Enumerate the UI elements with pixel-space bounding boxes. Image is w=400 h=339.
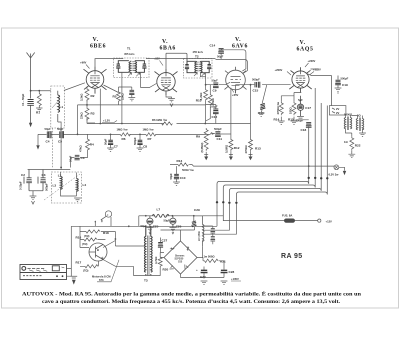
- resistor R13: [244, 84, 261, 155]
- voltage label +105V: [231, 277, 241, 281]
- svg-text:50pF: 50pF: [169, 173, 173, 180]
- ground under V2: [168, 99, 175, 107]
- svg-text:500pF: 500pF: [45, 183, 49, 191]
- capacitor C11: [210, 127, 231, 141]
- svg-text:455 kc/s: 455 kc/s: [124, 52, 135, 56]
- svg-text:R2: R2: [91, 94, 95, 98]
- junction dots power: [115, 215, 205, 278]
- svg-text:C29: C29: [194, 208, 200, 212]
- svg-text:1w 560Ω: 1w 560Ω: [204, 255, 216, 259]
- svg-text:R5: R5: [113, 95, 117, 99]
- svg-text:C15: C15: [253, 89, 259, 93]
- IF transformer T1 dashed box: [113, 58, 149, 78]
- IF transformer T1 label: [124, 47, 135, 57]
- ground arrow at bus left end: [36, 145, 39, 149]
- svg-text:22kΩ: 22kΩ: [80, 112, 84, 119]
- capacitor C5: [57, 127, 64, 143]
- svg-text:(7Ω): (7Ω): [84, 234, 90, 238]
- ground under oscillator box: [74, 198, 81, 201]
- tube V1 6BE6 label: [90, 37, 106, 50]
- svg-text:I: I: [108, 213, 109, 217]
- svg-text:C3: C3: [42, 173, 46, 177]
- wire AVC bus lower: [38, 134, 211, 145]
- ground arrow under antenna lead: [29, 123, 32, 127]
- pilot lamp: [329, 165, 347, 176]
- svg-text:C10: C10: [180, 176, 186, 180]
- output transformer T4 secondary: [356, 114, 364, 132]
- svg-text:500pF: 500pF: [296, 119, 304, 123]
- trimmer capacitor C3: [38, 170, 49, 192]
- svg-text:R7: R7: [148, 137, 152, 141]
- voltage label +92V at V2: [154, 57, 164, 66]
- svg-text:RA 95: RA 95: [281, 253, 303, 260]
- T1 secondary capacitor: [135, 61, 147, 73]
- voltage label +230V at V4: [305, 59, 316, 67]
- capacitor C6: [69, 155, 85, 162]
- svg-text:50pF: 50pF: [104, 138, 108, 145]
- capacitor C12: [206, 101, 219, 124]
- transistor type label: [92, 260, 119, 282]
- T2 tuning arrows: [194, 73, 205, 76]
- resistor R10: [196, 89, 208, 103]
- svg-text:Motorola 8 CM: Motorola 8 CM: [92, 275, 111, 279]
- svg-text:C25: C25: [153, 224, 159, 228]
- svg-text:6AV6: 6AV6: [232, 44, 248, 50]
- svg-text:500pF: 500pF: [214, 127, 222, 131]
- svg-text:C18: C18: [301, 128, 307, 132]
- svg-text:L7: L7: [157, 208, 161, 212]
- wire L1 to V1 grid: [64, 83, 85, 91]
- resistor R20: [151, 252, 169, 275]
- wire power section top: [71, 216, 217, 276]
- svg-text:R12: R12: [234, 146, 240, 150]
- junction dots mid buses: [99, 84, 206, 136]
- cable junction dots left: [216, 201, 238, 204]
- tube V2 6BA6: [155, 69, 178, 95]
- svg-text:50pF: 50pF: [217, 55, 224, 59]
- antenna: [27, 53, 35, 59]
- voltage label +222V at V4: [310, 68, 321, 75]
- tube V4 6AQ5: [289, 67, 311, 92]
- capacitor C29: [192, 208, 200, 230]
- wire tuning gang top: [28, 170, 71, 197]
- svg-text:L8 0,85Ω: L8 0,85Ω: [199, 231, 201, 241]
- svg-text:C17: C17: [305, 106, 311, 110]
- capacitor pair at L8: [211, 226, 216, 244]
- svg-text:R22: R22: [355, 144, 361, 148]
- svg-text:B: B: [97, 248, 99, 252]
- wire V1 cathode chain: [86, 87, 88, 124]
- trimmer inside L1 box: [52, 99, 60, 108]
- svg-text:5μF: 5μF: [298, 98, 303, 102]
- svg-text:C4: C4: [46, 140, 50, 144]
- electrolytic capacitor C26: [164, 216, 182, 234]
- wire AVC bus upper: [87, 89, 251, 124]
- svg-text:V.: V.: [300, 40, 306, 46]
- wires output transformer: [346, 115, 363, 133]
- svg-text:(7Ω): (7Ω): [83, 269, 89, 273]
- capacitor C14: [210, 44, 248, 74]
- svg-text:6BA6: 6BA6: [160, 46, 176, 52]
- svg-text:50pF: 50pF: [57, 127, 64, 131]
- tube V3 6AV6: [225, 67, 247, 93]
- T1 tuning arrows: [128, 73, 140, 77]
- svg-text:C19: C19: [342, 83, 348, 87]
- capacitor C18: [296, 119, 312, 133]
- T1 core: [132, 61, 133, 73]
- resistor R21: [203, 255, 226, 270]
- svg-text:500pF: 500pF: [252, 78, 260, 82]
- svg-text:+: +: [196, 268, 198, 272]
- cable junction dots right: [308, 177, 329, 180]
- resistor R4: [79, 138, 95, 153]
- svg-text:+65V: +65V: [232, 93, 239, 97]
- trimmer capacitor C2: [19, 170, 32, 191]
- T2 secondary coil: [200, 61, 202, 72]
- T1 secondary coil: [135, 61, 137, 73]
- capacitor C1: [21, 93, 34, 106]
- wire antenna to R1 and L1: [31, 90, 51, 92]
- capacitor C8: [133, 134, 147, 151]
- svg-text:180Ω: 180Ω: [289, 107, 293, 114]
- svg-text:R17: R17: [76, 261, 82, 265]
- wire V1 plate to T1: [95, 59, 113, 67]
- svg-text:V.: V.: [162, 39, 168, 45]
- svg-text:R6: R6: [122, 137, 126, 141]
- capacitor bypass at R5: [119, 87, 136, 101]
- svg-text:(0,5MΩ): (0,5MΩ): [200, 142, 204, 152]
- svg-text:V.: V.: [235, 37, 241, 43]
- svg-text:6AQ5: 6AQ5: [297, 47, 314, 53]
- svg-text:V.: V.: [93, 37, 99, 43]
- svg-text:(7Ω): (7Ω): [82, 242, 88, 246]
- voltage label +96V at V1: [80, 61, 90, 69]
- svg-text:470kΩ: 470kΩ: [244, 145, 248, 154]
- svg-text:1Ω: 1Ω: [344, 140, 348, 144]
- svg-text:C30: C30: [200, 275, 206, 279]
- resistor R11: [206, 85, 215, 121]
- svg-text:C9: C9: [213, 89, 217, 93]
- coil L3: [53, 177, 63, 190]
- wire T2 secondary down: [200, 73, 205, 89]
- control head connector box: [20, 265, 67, 280]
- svg-text:L3: L3: [53, 184, 57, 188]
- svg-text:+230V: +230V: [308, 59, 316, 63]
- IF transformer T2 dashed box: [184, 59, 213, 79]
- svg-text:T1: T1: [127, 47, 131, 51]
- resistor R15: [281, 92, 301, 124]
- svg-text:673: 673: [99, 278, 104, 282]
- svg-text:455 kc/s: 455 kc/s: [193, 50, 204, 54]
- svg-text:3-25pF: 3-25pF: [19, 181, 23, 190]
- wire B+ rail top: [113, 59, 215, 62]
- wire cable conductor 3: [229, 103, 321, 202]
- switch I1: [95, 211, 112, 227]
- svg-text:500Ω ½w: 500Ω ½w: [182, 168, 195, 172]
- svg-text:C8: C8: [143, 145, 147, 149]
- capacitor C9: [206, 79, 231, 93]
- terminal +12V: [318, 219, 332, 223]
- svg-text:C12: C12: [212, 115, 218, 119]
- resistor R1: [36, 91, 43, 115]
- wire transistor collector to transformer: [103, 232, 151, 276]
- oscillator coil dashed box: [51, 172, 81, 203]
- volume potentiometer R9: [196, 128, 208, 155]
- svg-text:R13: R13: [255, 147, 261, 151]
- svg-text:500pF: 500pF: [133, 137, 137, 145]
- svg-text:+105V: +105V: [231, 277, 239, 281]
- transformer T3 secondary: [144, 226, 152, 282]
- tube V3 6AV6 label: [232, 37, 248, 50]
- T1 primary coil: [129, 61, 131, 73]
- svg-text:FUS. 8A: FUS. 8A: [282, 214, 292, 218]
- resistor R2: [80, 88, 95, 102]
- resistor R12: [225, 88, 240, 155]
- svg-text:C2: C2: [21, 173, 25, 177]
- wire T1 primary bottom: [121, 72, 123, 123]
- coil L8: [199, 217, 204, 247]
- wire V3 plate to V4 grid: [236, 85, 291, 94]
- svg-text:R21: R21: [220, 260, 226, 264]
- transformer T3 primary: [144, 226, 145, 275]
- output transformer T4 primary: [344, 113, 353, 131]
- resistor R22: [344, 133, 361, 158]
- voltage label +207V at V4 screen: [275, 68, 292, 75]
- T2 core: [198, 62, 199, 73]
- capacitor C16: [258, 85, 267, 117]
- svg-text:C05: C05: [178, 262, 183, 264]
- T2 primary capacitor: [185, 61, 196, 72]
- T2 primary coil: [195, 61, 197, 72]
- svg-text:C5: C5: [58, 140, 62, 144]
- wire antenna down-lead: [30, 58, 32, 123]
- electrolytic capacitor C17: [297, 96, 311, 120]
- resistor R5: [104, 85, 125, 105]
- tube V1 6BE6: [84, 66, 107, 93]
- svg-text:C7: C7: [114, 145, 118, 149]
- wire cable conductor 1: [217, 126, 309, 201]
- svg-text:R13: R13: [177, 159, 183, 163]
- resistor R3: [80, 107, 95, 120]
- wire bridge connections: [160, 230, 203, 277]
- svg-text:cavo a quattro conduttori. Med: cavo a quattro conduttori. Media frequen…: [42, 299, 341, 305]
- svg-text:6,3V 3w: 6,3V 3w: [329, 172, 340, 176]
- svg-text:2V: 2V: [336, 107, 339, 111]
- tube V4 6AQ5 label: [297, 40, 314, 53]
- svg-text:R3: R3: [91, 112, 95, 116]
- svg-text:+96V: +96V: [80, 61, 87, 65]
- svg-text:47kΩ: 47kΩ: [79, 145, 83, 152]
- resistor R16: [76, 226, 106, 247]
- svg-text:AUTOVOX - Mod. RA 95. Autoradi: AUTOVOX - Mod. RA 95. Autoradio per la g…: [22, 290, 361, 298]
- svg-text:R4: R4: [90, 143, 94, 147]
- voltage label +1,2V: [102, 119, 117, 123]
- fuse FUS. 8A: [282, 214, 295, 223]
- IF transformer T2 label: [193, 50, 204, 59]
- svg-text:47kΩ: 47kΩ: [211, 98, 215, 105]
- electrolytic capacitor C25: [141, 216, 159, 234]
- voltage label +65V at V3: [232, 89, 239, 97]
- svg-text:C11: C11: [217, 137, 223, 141]
- svg-text:1MΩ ½w: 1MΩ ½w: [143, 128, 155, 132]
- output connector box: [329, 106, 346, 115]
- svg-text:R9: R9: [196, 135, 200, 139]
- svg-text:R16: R16: [76, 236, 82, 240]
- svg-text:+12V: +12V: [326, 219, 333, 223]
- svg-text:22kΩ: 22kΩ: [121, 93, 125, 100]
- tube V2 6BA6 label: [160, 39, 176, 52]
- svg-text:6BE6: 6BE6: [90, 44, 106, 50]
- svg-text:C6: C6: [81, 156, 85, 160]
- svg-text:L1: L1: [60, 105, 64, 109]
- wire L1 to bus: [58, 122, 61, 170]
- svg-text:R20: R20: [163, 268, 169, 272]
- svg-text:50μF: 50μF: [141, 224, 148, 228]
- svg-text:0,5MΩ: 0,5MΩ: [225, 144, 229, 153]
- coil L4: [77, 179, 87, 192]
- T1 primary capacitor: [116, 61, 129, 73]
- svg-text:C1 – 50pF: C1 – 50pF: [21, 93, 25, 106]
- rectifier bridge: [164, 241, 197, 274]
- electrolytic capacitor C30: [196, 267, 208, 285]
- control-head terminal arrows: [204, 155, 252, 160]
- ground at T4 secondary: [359, 133, 366, 136]
- resistor R13b tone: [170, 159, 309, 172]
- coil L1: [58, 91, 64, 122]
- svg-text:50pF: 50pF: [45, 127, 52, 131]
- svg-text:50μF: 50μF: [164, 218, 171, 222]
- svg-text:R6 1MΩ ½w: R6 1MΩ ½w: [152, 118, 168, 122]
- resistor R18: [80, 230, 115, 238]
- resistor R6: [117, 128, 131, 141]
- capacitor C27: [158, 238, 168, 253]
- svg-text:+222V: +222V: [313, 68, 321, 72]
- svg-text:50pF: 50pF: [212, 79, 219, 83]
- wire connector box to ground line: [67, 269, 72, 277]
- capacitor C4: [45, 127, 52, 143]
- wire cable conductor 4: [236, 106, 327, 202]
- ground power section: [70, 276, 77, 278]
- svg-text:C27: C27: [162, 239, 168, 243]
- svg-text:,05μF: ,05μF: [211, 105, 218, 109]
- wire cable conductor 2: [223, 88, 315, 202]
- wire lamp feed: [309, 166, 335, 167]
- svg-text:2V: 2V: [336, 111, 339, 115]
- capacitor C7: [104, 134, 119, 151]
- svg-text:C14: C14: [210, 44, 216, 48]
- wire +12V feed: [223, 203, 317, 221]
- svg-text:1MΩ ½w: 1MΩ ½w: [117, 128, 129, 132]
- resistor R8: [152, 118, 172, 125]
- svg-text:T2: T2: [195, 55, 199, 59]
- power transistor TR1: [89, 243, 107, 261]
- svg-text:Siemens: Siemens: [175, 256, 185, 258]
- resistor R14: [274, 96, 285, 125]
- electrolytic capacitor C28: [204, 269, 234, 284]
- wire V2 plate to T2: [166, 53, 187, 68]
- wire T1 secondary to V2 grid: [141, 73, 157, 88]
- T2 secondary capacitor: [201, 61, 212, 72]
- coil L7: [139, 208, 223, 218]
- svg-text:3,3kΩ: 3,3kΩ: [80, 93, 84, 101]
- resistor R7: [143, 128, 156, 141]
- wire oscillator coil connections: [61, 172, 77, 196]
- svg-text:4,7kΩ: 4,7kΩ: [154, 256, 158, 264]
- svg-text:L4: L4: [83, 183, 87, 187]
- wire screen line: [78, 105, 206, 134]
- svg-text:C28: C28: [229, 270, 235, 274]
- transformer T3 core: [148, 236, 149, 276]
- svg-text:+1,2V: +1,2V: [103, 119, 110, 123]
- antenna coil L1 dashed box: [51, 86, 65, 128]
- wire cable to power section: [203, 203, 237, 234]
- wire oscillator grid: [71, 123, 96, 168]
- svg-text:470kΩ 1w: 470kΩ 1w: [276, 101, 280, 114]
- svg-text:S1P3/50: S1P3/50: [175, 259, 185, 261]
- capacitor C10: [169, 166, 186, 185]
- ground under tuning gang: [30, 196, 37, 204]
- capacitor C19: [335, 77, 349, 94]
- svg-text:1,2kΩ: 1,2kΩ: [199, 92, 203, 100]
- capacitor C15: [252, 78, 260, 93]
- wire V2 cathode to ground: [166, 95, 172, 99]
- wire V4 plate to output: [307, 69, 339, 106]
- svg-text:C26: C26: [176, 224, 182, 228]
- svg-text:+203V: +203V: [275, 68, 283, 72]
- svg-text:T3: T3: [144, 279, 148, 283]
- resistor R17: [76, 261, 99, 273]
- tuning gang dashed link: [44, 174, 80, 200]
- svg-text:500pF: 500pF: [341, 77, 349, 81]
- wire filter outputs: [194, 216, 213, 258]
